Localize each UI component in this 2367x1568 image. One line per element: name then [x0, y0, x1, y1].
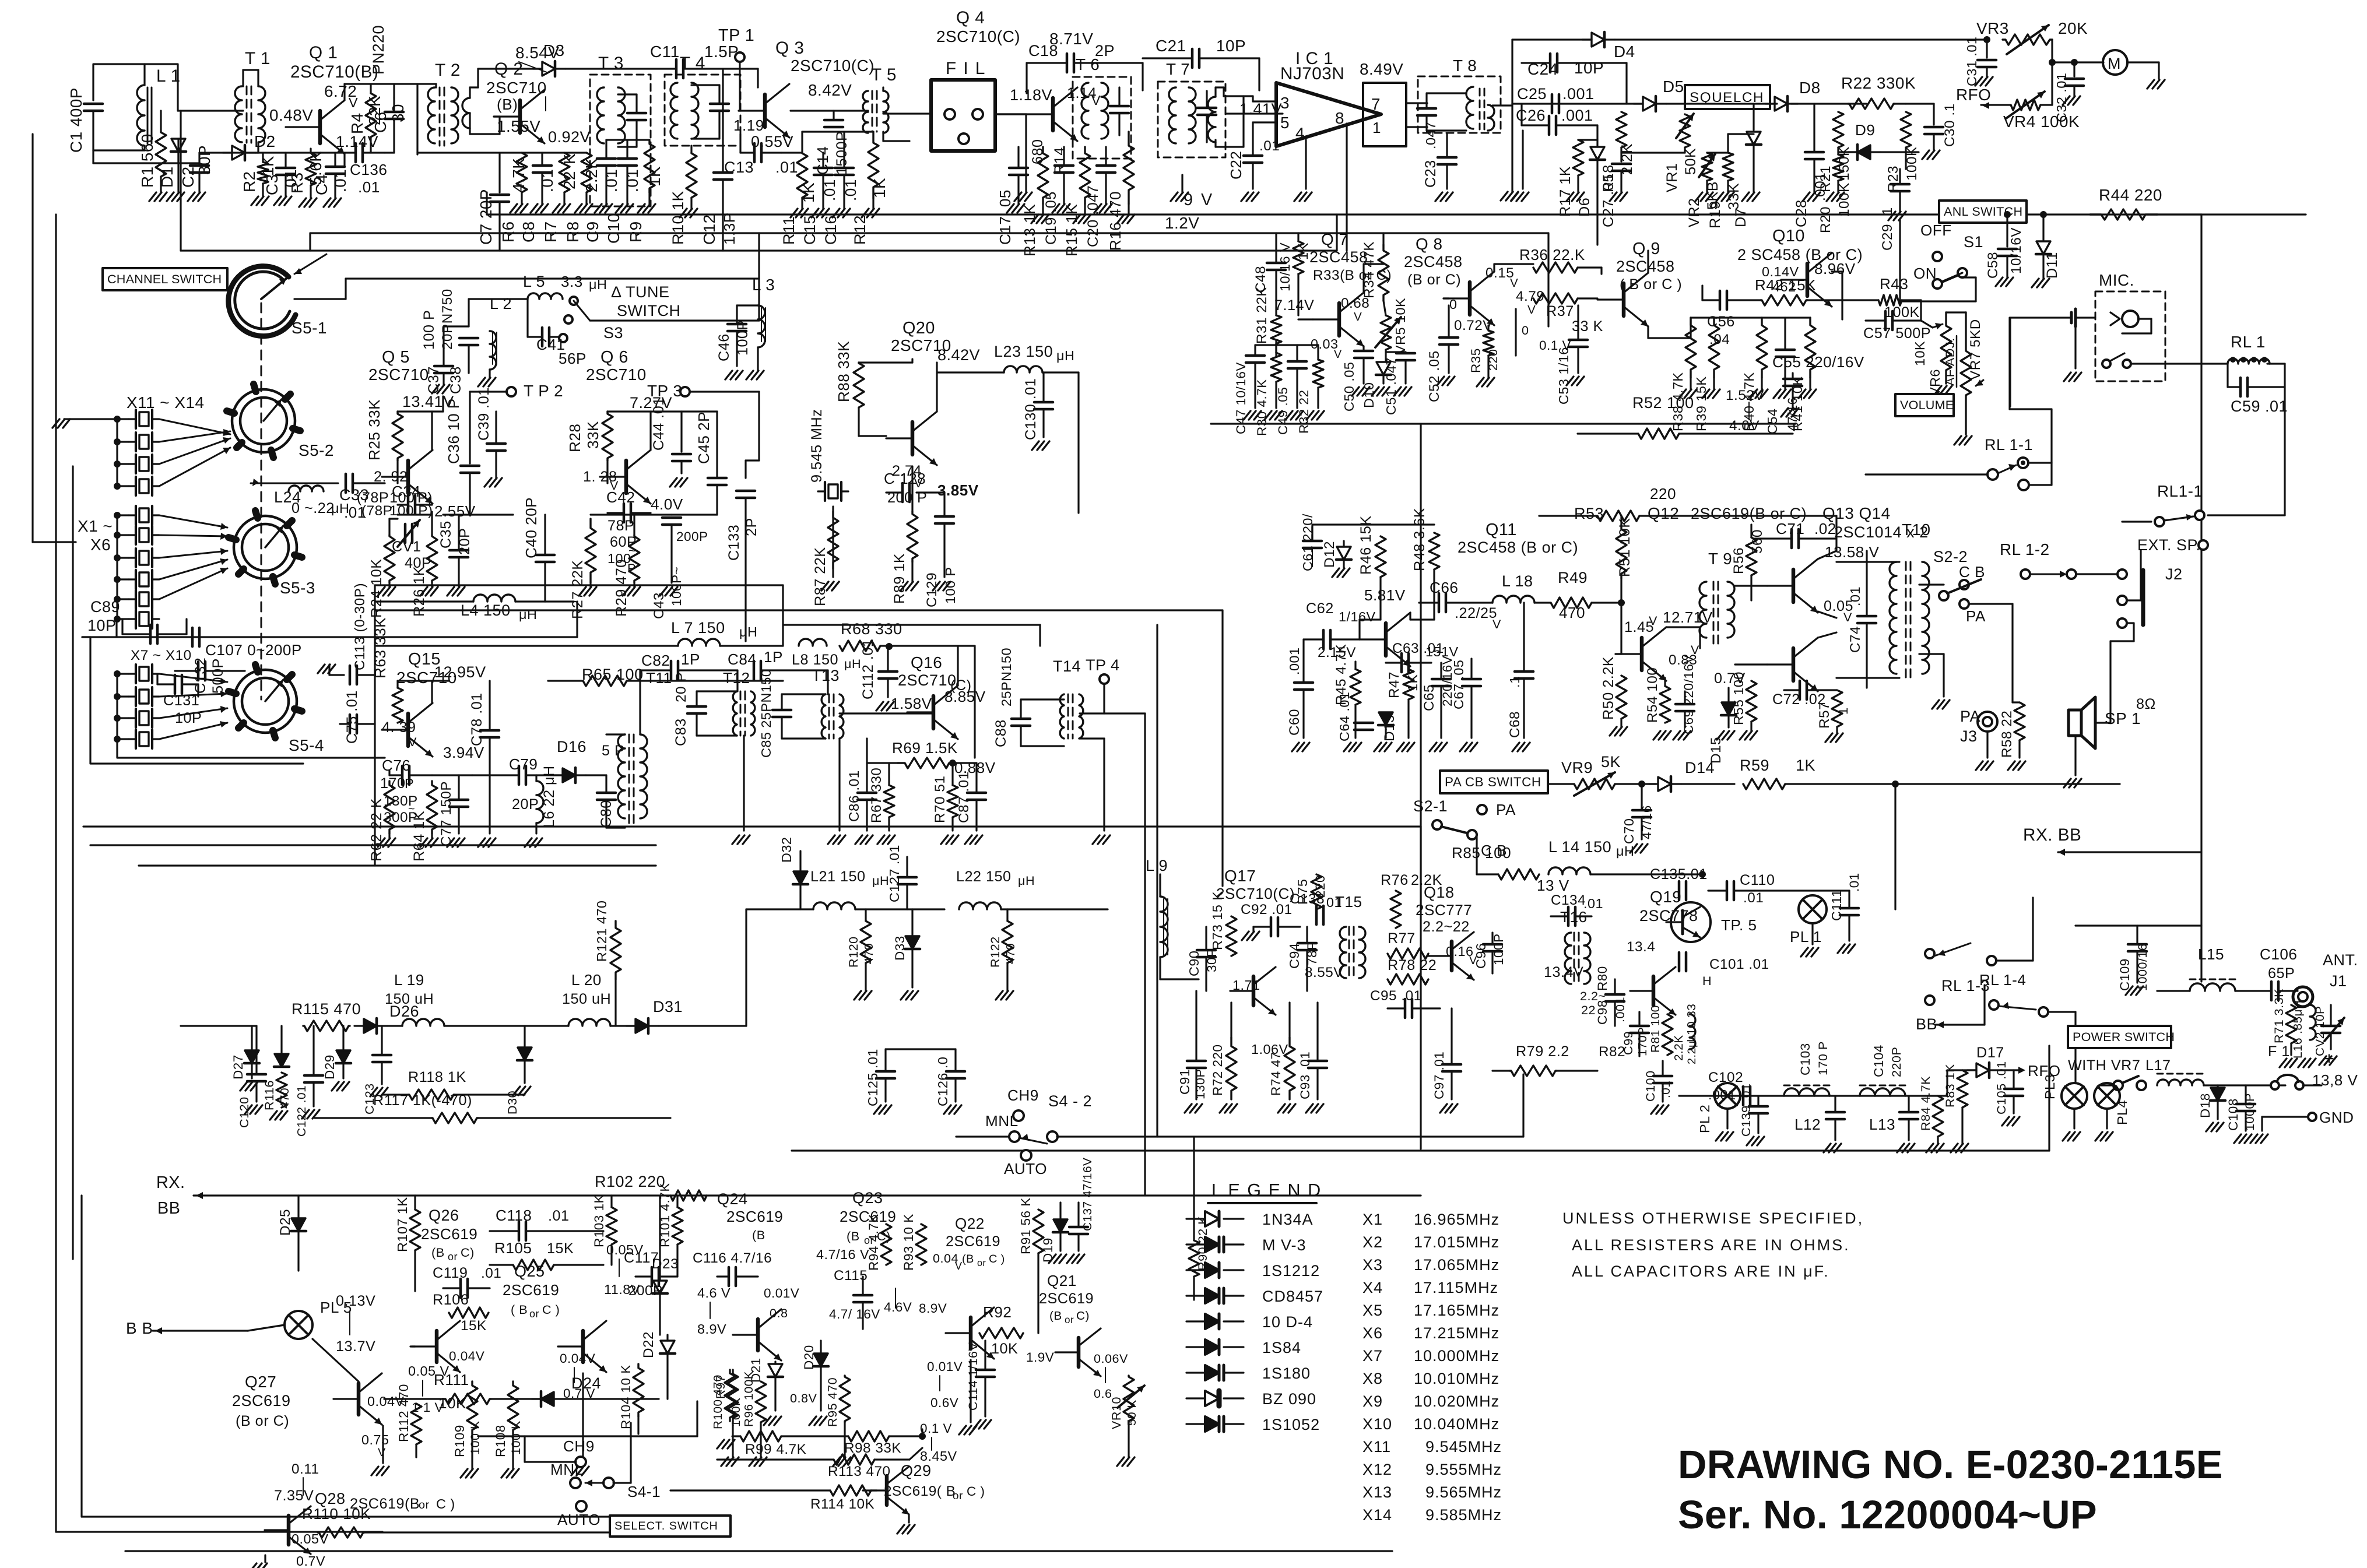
svg-text:C106: C106 — [2260, 945, 2297, 963]
svg-text:R51 10K: R51 10K — [1617, 518, 1633, 577]
svg-text:1.71: 1.71 — [1232, 978, 1260, 993]
svg-text:8.42V: 8.42V — [937, 346, 980, 364]
svg-text:C): C) — [461, 1245, 475, 1260]
svg-text:Q21: Q21 — [1047, 1272, 1077, 1289]
svg-text:R69 1.5K: R69 1.5K — [892, 739, 958, 757]
svg-text:C99: C99 — [1621, 1031, 1635, 1055]
svg-text:.047: .047 — [1423, 121, 1438, 149]
svg-text:R113 470: R113 470 — [828, 1464, 891, 1479]
svg-text:0.11: 0.11 — [292, 1461, 319, 1477]
svg-text:2SC458: 2SC458 — [1616, 258, 1675, 275]
svg-text:4.7/ 16V: 4.7/ 16V — [829, 1307, 880, 1321]
svg-text:1.5P: 1.5P — [704, 43, 739, 61]
svg-text:8.42V: 8.42V — [808, 81, 852, 99]
svg-text:.01: .01 — [1847, 873, 1862, 892]
svg-text:12.95V: 12.95V — [434, 663, 486, 681]
svg-text:S3: S3 — [603, 324, 623, 342]
svg-text:R70 51: R70 51 — [932, 776, 948, 823]
svg-text:20K: 20K — [2058, 19, 2088, 37]
svg-text:T 3: T 3 — [598, 54, 624, 73]
svg-text:10.040MHz: 10.040MHz — [1414, 1415, 1499, 1433]
svg-text:C53 1/16: C53 1/16 — [1556, 347, 1571, 405]
svg-text:0.75: 0.75 — [361, 1432, 389, 1447]
svg-text:C126 .0: C126 .0 — [935, 1057, 950, 1106]
svg-text:1S1212: 1S1212 — [1262, 1262, 1320, 1279]
svg-text:(B): (B) — [497, 96, 518, 113]
svg-text:Q23: Q23 — [852, 1189, 883, 1207]
svg-text:P: P — [405, 776, 414, 791]
svg-text:VR5 10K: VR5 10K — [1393, 298, 1408, 354]
svg-text:C139 .01: C139 .01 — [1739, 1083, 1753, 1137]
svg-text:9.545MHz: 9.545MHz — [1425, 1438, 1502, 1456]
svg-text:R79 2.2: R79 2.2 — [1516, 1043, 1569, 1060]
svg-text:X1: X1 — [1362, 1211, 1383, 1228]
svg-text:0.92V: 0.92V — [548, 128, 591, 146]
svg-text:2.2K: 2.2K — [1672, 1035, 1685, 1061]
svg-text:7: 7 — [1371, 95, 1381, 113]
svg-text:2SC619: 2SC619 — [726, 1208, 783, 1225]
svg-text:8.9V: 8.9V — [919, 1301, 947, 1316]
svg-text:C26: C26 — [1516, 107, 1546, 124]
svg-text:C62: C62 — [1306, 600, 1334, 617]
svg-text:VR6: VR6 — [1927, 369, 1943, 396]
svg-text:R34 47K: R34 47K — [1361, 241, 1377, 298]
svg-text:C36 10 P: C36 10 P — [445, 398, 462, 464]
svg-text:C133: C133 — [726, 525, 742, 561]
svg-text:C57 500P: C57 500P — [1863, 325, 1931, 342]
svg-text:C68: C68 — [1507, 711, 1523, 738]
svg-text:R122: R122 — [988, 936, 1002, 968]
svg-text:.01: .01 — [775, 159, 798, 176]
svg-text:C24: C24 — [1527, 60, 1558, 78]
svg-text:NJ703N: NJ703N — [1280, 64, 1344, 83]
svg-text:CH9: CH9 — [1007, 1087, 1039, 1104]
svg-text:R57: R57 — [1817, 702, 1832, 729]
svg-text:R42 15K: R42 15K — [1755, 276, 1816, 294]
svg-text:1N34A: 1N34A — [1262, 1211, 1314, 1228]
svg-text:C41: C41 — [536, 336, 565, 353]
svg-text:D6: D6 — [1576, 198, 1593, 217]
svg-text:X12: X12 — [1362, 1461, 1392, 1478]
svg-text:25PN150: 25PN150 — [999, 648, 1014, 706]
svg-text:0.55V: 0.55V — [751, 133, 793, 150]
svg-text:5K: 5K — [1601, 753, 1621, 771]
svg-text:(B or C): (B or C) — [236, 1413, 289, 1429]
svg-text:L22 150: L22 150 — [956, 869, 1012, 885]
svg-text:1.9V: 1.9V — [1026, 1350, 1054, 1365]
svg-text:C35: C35 — [438, 521, 454, 549]
svg-text:T 5: T 5 — [871, 65, 897, 85]
svg-text:C82: C82 — [641, 652, 670, 669]
svg-text:R78 22: R78 22 — [1388, 957, 1437, 973]
svg-text:R21: R21 — [1818, 166, 1834, 192]
svg-text:RL1-1: RL1-1 — [2157, 482, 2203, 500]
svg-text:C104: C104 — [1871, 1045, 1886, 1077]
svg-text:R44 220: R44 220 — [2099, 186, 2162, 204]
svg-text:4.0V: 4.0V — [1729, 418, 1760, 434]
svg-text:μH: μH — [1056, 348, 1074, 363]
svg-text:D27: D27 — [231, 1054, 245, 1080]
svg-text:C83: C83 — [673, 718, 689, 746]
svg-text:V: V — [1649, 613, 1657, 628]
svg-text:.02: .02 — [1814, 520, 1836, 537]
svg-text:17.065MHz: 17.065MHz — [1414, 1256, 1499, 1274]
svg-text:.01: .01 — [548, 1208, 570, 1224]
svg-text:.001: .001 — [1287, 647, 1302, 675]
svg-text:10P: 10P — [1574, 59, 1604, 77]
svg-text:1.3P: 1.3P — [721, 212, 738, 245]
svg-text:R98 33K: R98 33K — [844, 1440, 901, 1456]
svg-text:22: 22 — [1581, 1003, 1596, 1017]
svg-text:or: or — [977, 1258, 986, 1268]
svg-text:2SC619( B: 2SC619( B — [884, 1483, 956, 1499]
svg-text:2SC710: 2SC710 — [486, 79, 547, 97]
svg-text:C84: C84 — [728, 651, 756, 668]
svg-text:T 9: T 9 — [1708, 550, 1732, 568]
svg-text:X7: X7 — [1362, 1347, 1383, 1365]
svg-text:T 4: T 4 — [680, 54, 705, 73]
svg-text:R114 10K: R114 10K — [810, 1496, 875, 1512]
svg-text:13.7V: 13.7V — [336, 1338, 375, 1355]
svg-text:D4: D4 — [1614, 43, 1635, 61]
svg-text:R29 470: R29 470 — [613, 559, 630, 617]
svg-text:R49: R49 — [1558, 569, 1588, 586]
svg-text:or: or — [419, 1499, 430, 1511]
svg-text:R15 1K: R15 1K — [1063, 204, 1080, 256]
svg-text:R12: R12 — [851, 215, 869, 245]
svg-text:CD8457: CD8457 — [1262, 1288, 1323, 1305]
svg-text:78P: 78P — [607, 518, 634, 534]
svg-text:C): C) — [1076, 1309, 1090, 1323]
svg-text:C56: C56 — [1707, 314, 1735, 330]
svg-text:R62 22 K: R62 22 K — [368, 798, 385, 862]
svg-text:C40 20P: C40 20P — [522, 497, 540, 558]
svg-text:R73 15 K: R73 15 K — [1210, 891, 1225, 950]
svg-text:C13: C13 — [724, 159, 754, 176]
svg-text:L 1: L 1 — [156, 66, 181, 86]
svg-text:(B: (B — [752, 1228, 765, 1242]
svg-text:B B: B B — [126, 1319, 153, 1337]
svg-text:.01: .01 — [602, 169, 620, 192]
svg-text:R8: R8 — [564, 221, 582, 242]
svg-text:R76: R76 — [1381, 872, 1409, 888]
svg-text:ANT.: ANT. — [2323, 951, 2358, 969]
svg-text:8.85V: 8.85V — [944, 688, 986, 705]
svg-text:R7: R7 — [542, 221, 560, 242]
svg-text:10.010MHz: 10.010MHz — [1414, 1370, 1499, 1387]
svg-text:100K: 100K — [1836, 182, 1852, 217]
svg-text:R117 1K(-470): R117 1K(-470) — [373, 1092, 472, 1109]
svg-text:L8 150: L8 150 — [792, 652, 838, 668]
svg-text:RX. BB: RX. BB — [2023, 825, 2081, 845]
svg-text:L 5: L 5 — [523, 273, 545, 290]
svg-text:9 V: 9 V — [1183, 191, 1214, 209]
svg-text:R20: R20 — [1818, 206, 1834, 233]
svg-text:Q 4: Q 4 — [956, 8, 985, 27]
svg-text:(78P: (78P — [361, 503, 392, 519]
svg-text:μH: μH — [519, 607, 537, 622]
svg-text:C59 .01: C59 .01 — [2231, 398, 2288, 415]
svg-text:1/16V: 1/16V — [1339, 609, 1376, 624]
svg-text:( B: ( B — [511, 1302, 528, 1317]
svg-text:2SC619: 2SC619 — [232, 1392, 291, 1409]
svg-text:R81 100: R81 100 — [1649, 1005, 1662, 1053]
svg-text:R47: R47 — [1386, 672, 1402, 698]
svg-text:CH9: CH9 — [563, 1437, 595, 1455]
svg-text:S5-4: S5-4 — [289, 736, 324, 754]
svg-text:R80: R80 — [1595, 966, 1610, 991]
svg-text:.01: .01 — [538, 169, 556, 192]
svg-text:0.6V: 0.6V — [930, 1395, 958, 1410]
svg-text:PL 2: PL 2 — [1697, 1105, 1712, 1133]
svg-text:TP 3: TP 3 — [647, 382, 682, 400]
svg-text:C88: C88 — [993, 719, 1009, 747]
svg-text:R115 470: R115 470 — [292, 1000, 361, 1018]
svg-text:( B or C ): ( B or C ) — [1620, 276, 1682, 293]
svg-text:L13: L13 — [1869, 1116, 1895, 1133]
svg-text:X6: X6 — [1362, 1324, 1383, 1342]
svg-text:0.06V: 0.06V — [1094, 1351, 1128, 1366]
svg-text:2.2~22: 2.2~22 — [1423, 919, 1470, 935]
svg-text:AUTO: AUTO — [1004, 1160, 1047, 1177]
svg-text:Ser. No. 12200004~UP: Ser. No. 12200004~UP — [1678, 1493, 2097, 1537]
svg-text:C70: C70 — [1621, 818, 1636, 844]
svg-text:2SC619: 2SC619 — [946, 1233, 1000, 1250]
svg-text:X7 ~ X10: X7 ~ X10 — [131, 648, 192, 663]
svg-text:V: V — [378, 1446, 386, 1459]
svg-text:10/16 V: 10/16 V — [1277, 242, 1293, 291]
svg-text:M: M — [2108, 55, 2121, 72]
svg-text:T10: T10 — [1902, 521, 1931, 539]
svg-text:220: 220 — [1650, 485, 1676, 502]
svg-text:C117: C117 — [624, 1250, 659, 1266]
svg-text:L 7 150: L 7 150 — [671, 619, 725, 637]
svg-text:C116 4.7/16: C116 4.7/16 — [693, 1250, 772, 1266]
svg-text:C61 220/: C61 220/ — [1300, 514, 1315, 571]
svg-text:R74 47: R74 47 — [1269, 1052, 1283, 1096]
svg-text:T 6: T 6 — [1076, 55, 1100, 73]
svg-text:R1 560: R1 560 — [138, 133, 156, 188]
svg-text:0.05V: 0.05V — [292, 1531, 329, 1546]
svg-text:μH: μH — [844, 656, 861, 671]
svg-text:Q11: Q11 — [1485, 521, 1517, 539]
svg-text:R35: R35 — [1469, 348, 1483, 373]
svg-text:8.9V: 8.9V — [697, 1321, 726, 1337]
svg-text:T 7: T 7 — [1166, 60, 1190, 78]
svg-text:C ): C ) — [989, 1253, 1005, 1265]
svg-text:X13: X13 — [1362, 1483, 1392, 1501]
svg-text:MNL: MNL — [550, 1461, 584, 1478]
svg-text:1K: 1K — [1796, 757, 1815, 774]
svg-text:1S1052: 1S1052 — [1262, 1416, 1320, 1433]
svg-text:220: 220 — [1485, 349, 1500, 371]
svg-text:17.165MHz: 17.165MHz — [1414, 1302, 1499, 1319]
svg-text:V: V — [955, 1260, 963, 1272]
svg-text:C65: C65 — [1421, 684, 1437, 711]
svg-text:1.18V: 1.18V — [1010, 86, 1052, 104]
svg-text:R85 100: R85 100 — [1452, 844, 1511, 862]
svg-text:C101 .01: C101 .01 — [1709, 957, 1769, 972]
svg-text:C74: C74 — [1848, 626, 1863, 653]
svg-text:500P: 500P — [210, 658, 226, 694]
svg-text:VR7 5KD: VR7 5KD — [1968, 319, 1983, 380]
svg-text:C39 .01: C39 .01 — [476, 387, 492, 441]
svg-text:C76: C76 — [382, 757, 410, 774]
svg-text:C14: C14 — [814, 146, 831, 175]
svg-text:1.55V: 1.55V — [497, 117, 540, 135]
svg-text:X5: X5 — [1362, 1302, 1383, 1319]
svg-text:20 P: 20 P — [673, 672, 689, 702]
svg-text:8.96V: 8.96V — [1814, 260, 1856, 277]
svg-text:PL 1: PL 1 — [1790, 928, 1822, 945]
svg-text:Q19: Q19 — [1650, 888, 1681, 906]
svg-text:R31 22K: R31 22K — [1254, 287, 1270, 344]
svg-text:R72 220: R72 220 — [1210, 1044, 1225, 1096]
svg-text:V: V — [408, 734, 417, 749]
svg-text:65P: 65P — [2268, 965, 2295, 982]
svg-text:S5-2: S5-2 — [298, 441, 334, 459]
svg-text:SWITCH: SWITCH — [617, 302, 680, 319]
svg-text:C138: C138 — [1290, 891, 1325, 907]
svg-text:R16 470: R16 470 — [1107, 191, 1124, 251]
svg-text:2SC619: 2SC619 — [503, 1281, 559, 1299]
svg-text:10.020MHz: 10.020MHz — [1414, 1393, 1499, 1410]
svg-text:C120: C120 — [237, 1096, 251, 1128]
svg-text:10.000MHz: 10.000MHz — [1414, 1347, 1499, 1365]
svg-text:150 uH: 150 uH — [562, 991, 611, 1007]
svg-text:X3: X3 — [1362, 1256, 1383, 1274]
svg-text:T 1: T 1 — [245, 49, 271, 68]
svg-text:L 2: L 2 — [490, 295, 512, 312]
svg-text:8Ω: 8Ω — [2136, 696, 2156, 712]
svg-text:C1 400P: C1 400P — [67, 87, 85, 153]
svg-text:(B: (B — [847, 1229, 860, 1243]
svg-text:Q 7: Q 7 — [1321, 230, 1348, 248]
svg-text:PL3: PL3 — [2042, 1074, 2057, 1099]
svg-text:Q26: Q26 — [429, 1207, 459, 1224]
svg-text:C23: C23 — [1423, 160, 1439, 188]
svg-text:X10: X10 — [1362, 1415, 1392, 1433]
svg-text:100P: 100P — [1491, 933, 1506, 965]
svg-text:D8: D8 — [1799, 79, 1821, 97]
svg-text:100K: 100K — [1884, 304, 1920, 321]
svg-text:2.2μ: 2.2μ — [1685, 1040, 1698, 1064]
svg-text:R121 470: R121 470 — [594, 901, 609, 962]
svg-text:D2: D2 — [254, 132, 276, 150]
svg-text:GND: GND — [2319, 1109, 2354, 1126]
svg-text:C ): C ) — [967, 1484, 985, 1499]
svg-text:DRAWING NO. E-0230-2115E: DRAWING NO. E-0230-2115E — [1678, 1443, 2223, 1487]
svg-text:L 19: L 19 — [394, 971, 424, 989]
svg-text:L12: L12 — [1794, 1116, 1821, 1133]
svg-text:S1: S1 — [1964, 233, 1983, 251]
svg-text:C107 0~200P: C107 0~200P — [205, 641, 302, 659]
svg-text:C ): C ) — [436, 1496, 455, 1511]
svg-text:100 P: 100 P — [943, 567, 958, 604]
svg-text:T P 2: T P 2 — [524, 382, 563, 400]
svg-text:AUTO: AUTO — [557, 1511, 600, 1528]
svg-text:X4: X4 — [1362, 1279, 1383, 1296]
svg-text:R26 1K: R26 1K — [411, 566, 427, 617]
svg-text:C45 2P: C45 2P — [695, 412, 712, 464]
svg-text:L 18: L 18 — [1502, 572, 1533, 590]
svg-text:R30 4.7K: R30 4.7K — [1255, 379, 1269, 436]
svg-text:Q 8: Q 8 — [1416, 235, 1442, 253]
svg-text:C95 .01: C95 .01 — [1370, 988, 1422, 1004]
svg-text:R48 3.6K: R48 3.6K — [1411, 508, 1428, 571]
svg-text:R104 10 K: R104 10 K — [619, 1365, 633, 1429]
svg-text:4: 4 — [1295, 124, 1305, 142]
svg-text:1.2V: 1.2V — [1165, 214, 1199, 232]
svg-text:0.8: 0.8 — [770, 1306, 788, 1320]
svg-text:C28: C28 — [1793, 199, 1810, 227]
svg-text:2.2K: 2.2K — [582, 158, 600, 192]
svg-text:(B or C): (B or C) — [1407, 272, 1461, 288]
svg-text:13.4: 13.4 — [1627, 939, 1655, 955]
svg-text:C44 .01: C44 .01 — [651, 397, 667, 451]
svg-text:ANL SWITCH: ANL SWITCH — [1944, 204, 2022, 219]
svg-text:VOLUME: VOLUME — [1900, 398, 1954, 412]
svg-text:30: 30 — [389, 104, 407, 122]
svg-text:Q12: Q12 — [1648, 504, 1679, 522]
svg-text:4.7/16 V: 4.7/16 V — [816, 1247, 869, 1262]
svg-text:C46: C46 — [716, 333, 732, 361]
svg-text:D29: D29 — [322, 1054, 337, 1080]
svg-text:ALL CAPACITORS ARE IN μF.: ALL CAPACITORS ARE IN μF. — [1572, 1263, 1830, 1280]
svg-text:100P~: 100P~ — [669, 567, 684, 606]
svg-text:1.58V: 1.58V — [891, 695, 932, 712]
svg-text:130P: 130P — [1193, 1069, 1207, 1099]
svg-text:.01: .01 — [358, 178, 380, 196]
svg-text:VR2: VR2 — [1686, 198, 1702, 228]
svg-text:7.35V: 7.35V — [274, 1488, 314, 1504]
svg-text:R32 22: R32 22 — [1297, 389, 1311, 434]
svg-text:C93 .01: C93 .01 — [1298, 1052, 1312, 1099]
svg-text:1S84: 1S84 — [1262, 1339, 1301, 1356]
svg-text:T12: T12 — [723, 669, 750, 687]
svg-text:C30 .1: C30 .1 — [1942, 103, 1958, 147]
svg-text:V: V — [1091, 93, 1101, 108]
svg-text:C77 150P: C77 150P — [438, 781, 454, 846]
svg-text:MIC.: MIC. — [2099, 271, 2134, 289]
svg-text:2SC777: 2SC777 — [1416, 901, 1472, 919]
svg-text:RFO: RFO — [1956, 86, 1991, 104]
svg-text:R91 56 K: R91 56 K — [1019, 1197, 1033, 1254]
svg-text:C92 .01: C92 .01 — [1241, 902, 1293, 917]
svg-text:R110 10K: R110 10K — [302, 1505, 371, 1523]
svg-text:ALL RESISTERS ARE IN OHM: ALL RESISTERS ARE IN OHMS. — [1572, 1236, 1850, 1254]
svg-text:C110: C110 — [1740, 872, 1775, 888]
svg-text:2SC710(C): 2SC710(C) — [1216, 885, 1295, 902]
svg-text:C49 .05: C49 .05 — [1276, 387, 1290, 435]
svg-text:0.48V: 0.48V — [269, 106, 313, 124]
svg-text:PN220: PN220 — [370, 25, 387, 75]
svg-text:PA: PA — [1496, 801, 1516, 818]
svg-text:C129: C129 — [924, 572, 940, 607]
svg-text:R64 1K: R64 1K — [411, 811, 427, 862]
svg-text:D7: D7 — [1733, 208, 1749, 227]
svg-text:.01: .01 — [481, 1265, 501, 1281]
svg-text:R3: R3 — [288, 172, 306, 194]
svg-text:.04: .04 — [1709, 332, 1730, 347]
svg-text:C94: C94 — [1287, 943, 1302, 969]
svg-text:0.05 V: 0.05 V — [408, 1363, 449, 1379]
svg-text:R93 10 K: R93 10 K — [901, 1214, 916, 1271]
svg-text:R52 100: R52 100 — [1632, 394, 1694, 412]
svg-text:8.45V: 8.45V — [920, 1449, 957, 1464]
svg-text:1: 1 — [1372, 119, 1381, 136]
svg-text:S4 - 2: S4 - 2 — [1048, 1092, 1092, 1110]
